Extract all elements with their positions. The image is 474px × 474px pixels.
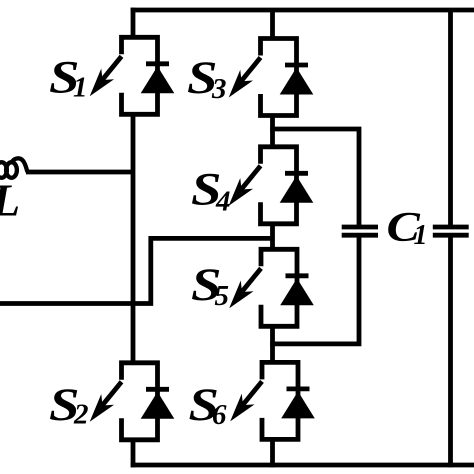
wire: inductor output to branch S1-S2 <box>26 170 135 175</box>
wire: right rail upper segment <box>448 10 453 225</box>
svg-text:1: 1 <box>73 72 88 104</box>
wire: top rail <box>131 8 474 13</box>
wire: S3-S4 link <box>270 115 275 147</box>
svg-text:3: 3 <box>211 73 227 105</box>
wire: S5/S6 node to C1 bottom plate <box>270 237 359 344</box>
switch S3 <box>229 39 314 116</box>
svg-text:L: L <box>0 175 20 226</box>
wire: S4-S5 link <box>270 224 275 250</box>
wire: right rail lower segment <box>448 237 453 467</box>
wire: branch S1-S2 <box>131 114 136 362</box>
svg-text:6: 6 <box>212 399 227 431</box>
wire: S2 bottom lead <box>131 440 136 468</box>
wire: bottom rail <box>131 463 474 468</box>
wire: lower input wire with step up to S4/S5 node <box>0 238 273 303</box>
wire: S3 top lead <box>270 10 275 39</box>
switch S2 <box>90 363 175 440</box>
svg-text:5: 5 <box>215 280 230 312</box>
wire: S6 bottom lead <box>270 439 275 467</box>
wire: S5-S6 link <box>270 326 275 362</box>
capacitor (bus capacitor, right rail) <box>433 227 469 235</box>
switch S5 <box>229 249 314 326</box>
svg-text:2: 2 <box>73 399 89 431</box>
svg-text:1: 1 <box>414 220 428 251</box>
svg-text:4: 4 <box>215 186 231 218</box>
capacitor C1 plates <box>342 227 378 235</box>
wire: S1 top lead <box>131 8 136 38</box>
wire: S3/S4 node to C1 top plate <box>270 129 359 225</box>
inductor L coil <box>0 158 27 177</box>
switch S6 <box>230 362 315 439</box>
switch S4 <box>229 147 314 224</box>
switch S1 <box>90 37 175 114</box>
